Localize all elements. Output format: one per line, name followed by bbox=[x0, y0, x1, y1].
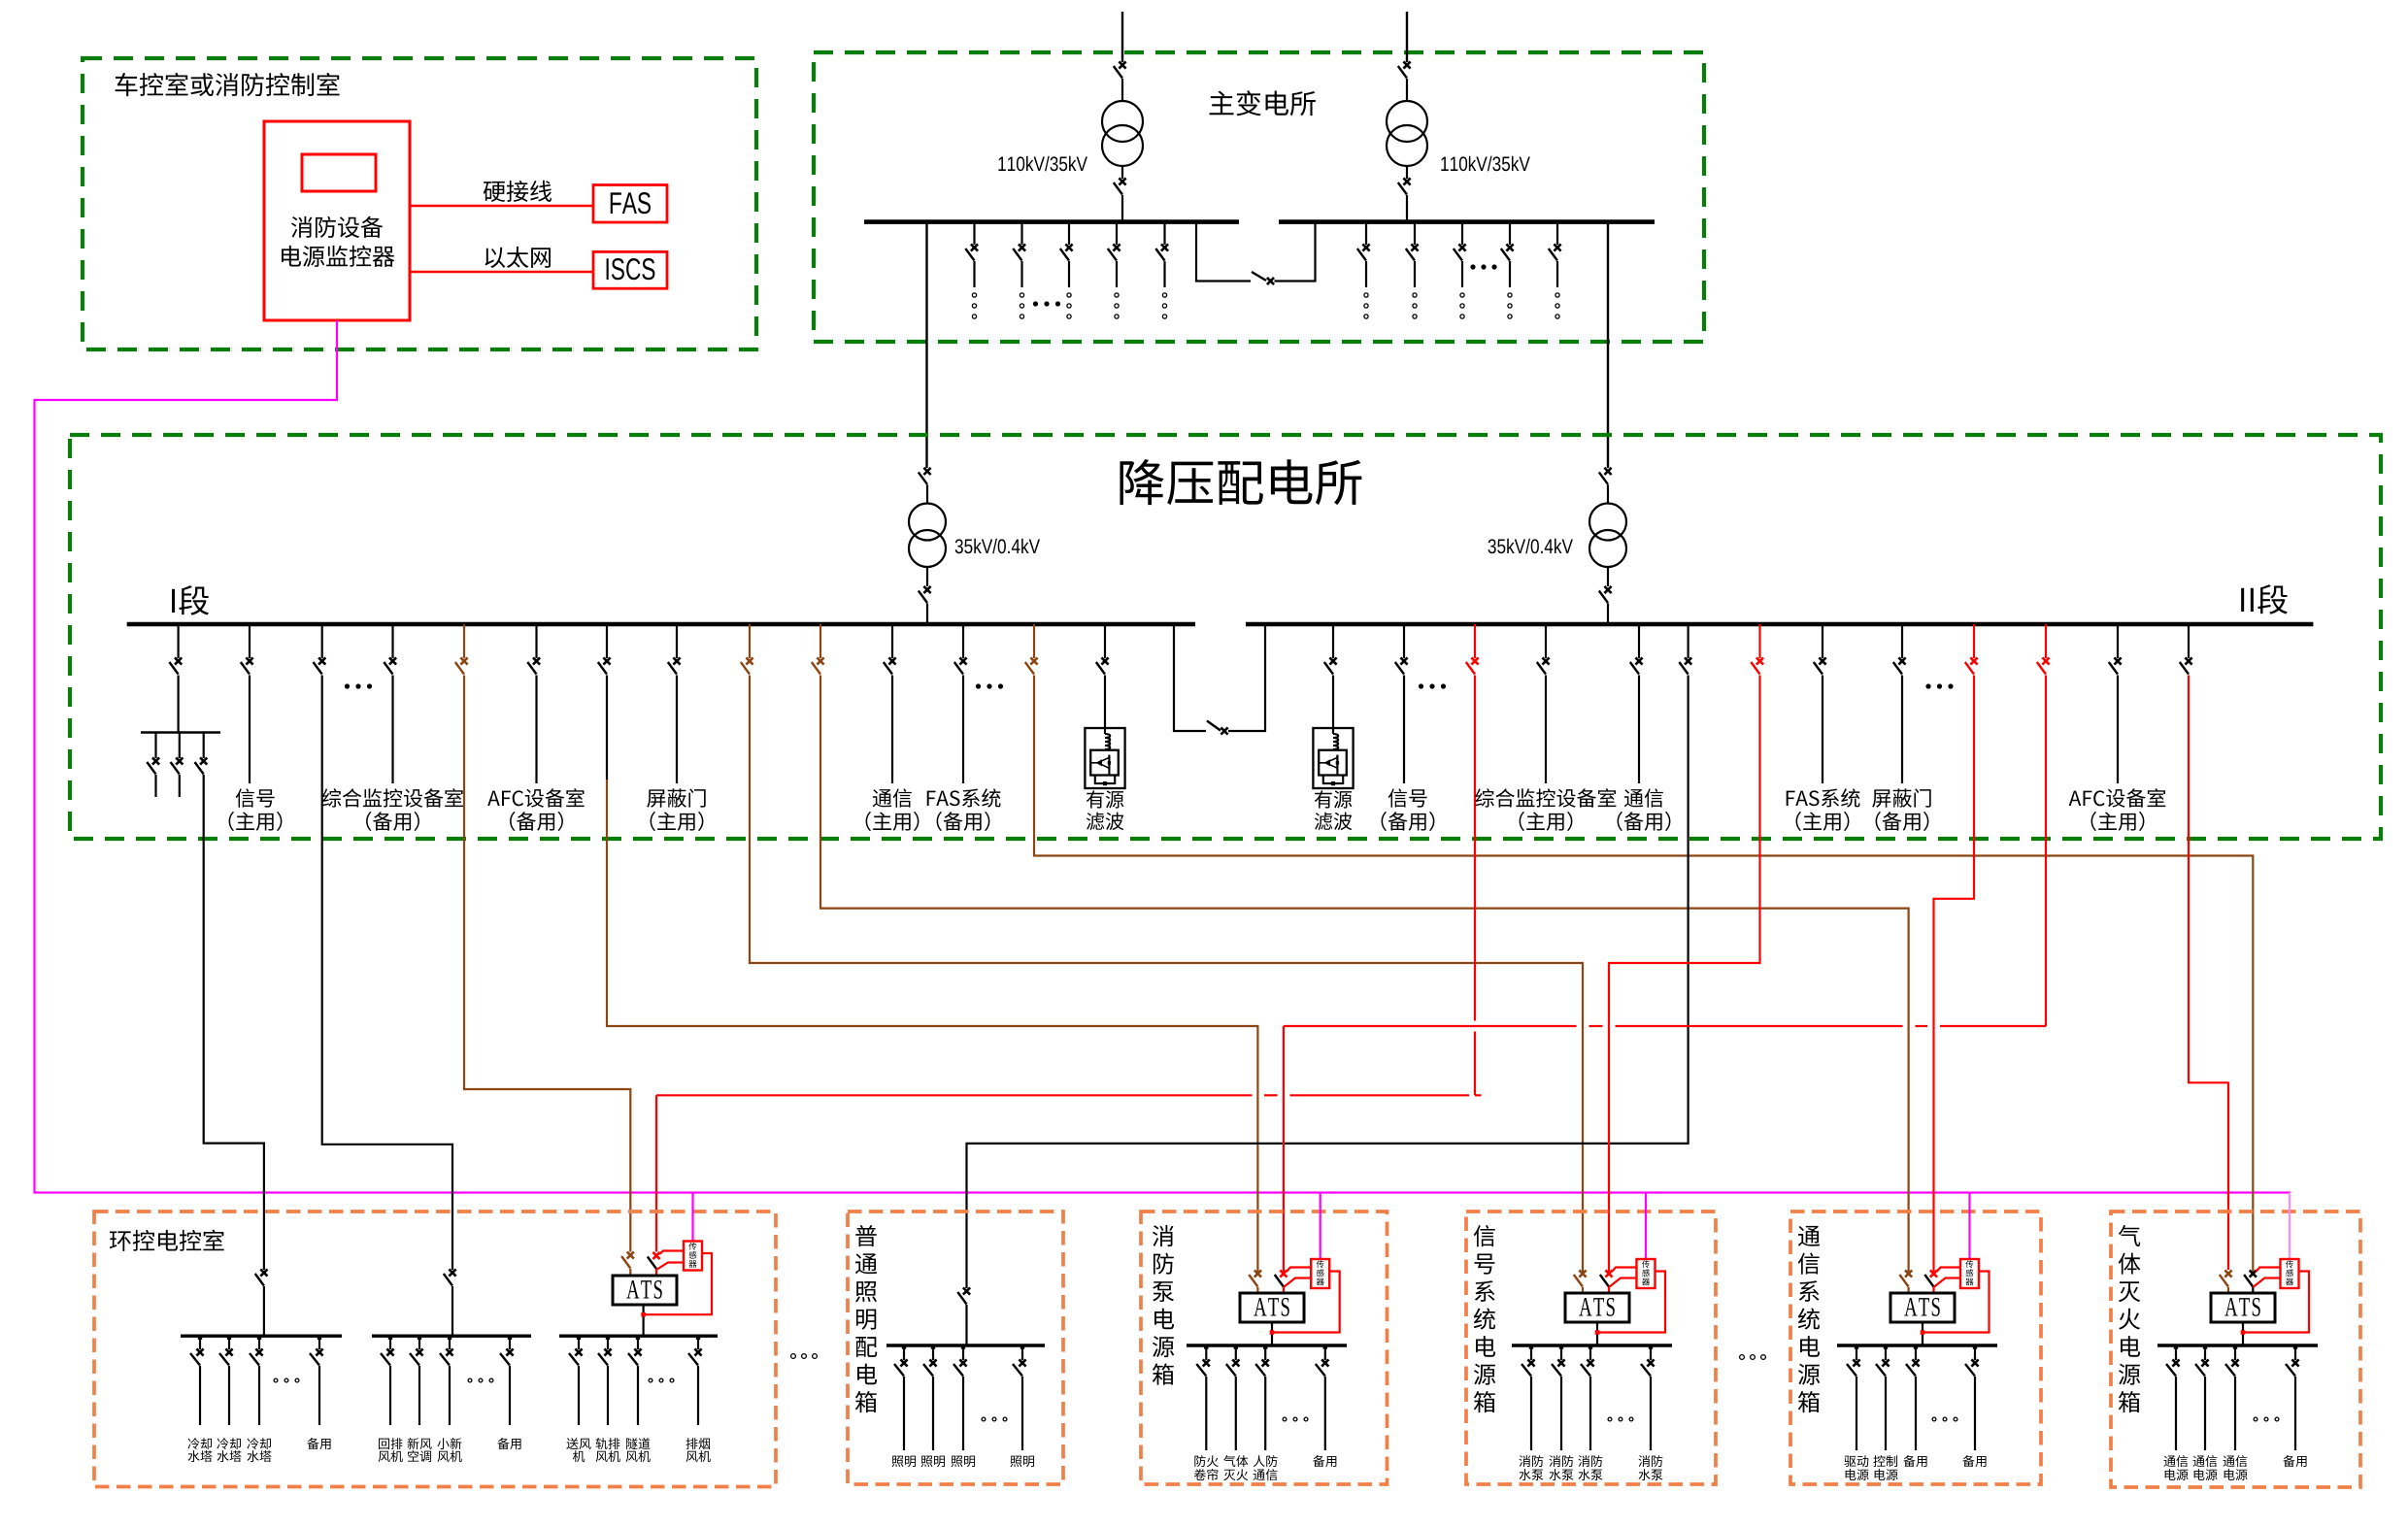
LV side breaker bbox=[1121, 166, 1123, 179]
label 滤波 bbox=[1315, 813, 1333, 831]
label 电 bbox=[1800, 1336, 1820, 1357]
label 隧道 bbox=[626, 1438, 638, 1449]
ATS brown-side breaker bbox=[1579, 1270, 1586, 1277]
branch breaker x=1242.3 bbox=[1205, 1345, 1207, 1360]
label 水泵 bbox=[1639, 1469, 1651, 1480]
label FAS系统 bbox=[927, 791, 936, 806]
label 感 bbox=[1966, 1269, 1974, 1277]
sensor taps bbox=[2256, 1268, 2280, 1273]
feeder 通信(主用) bbox=[891, 624, 893, 658]
label 电 bbox=[857, 1364, 877, 1385]
label 感 bbox=[689, 1251, 697, 1259]
label 环控电控室 bbox=[110, 1231, 131, 1250]
label 传 bbox=[2286, 1260, 2293, 1268]
label （备用） bbox=[1382, 812, 1387, 831]
hard-wire link 硬接线 to FAS bbox=[410, 205, 593, 207]
label 信号 bbox=[236, 788, 254, 807]
branch breaker (cooling tower group) x=206 bbox=[199, 1336, 201, 1349]
label 配 bbox=[855, 1337, 877, 1357]
label 冷却 bbox=[217, 1438, 228, 1449]
brown feeder to box1 ATS bbox=[463, 624, 465, 658]
label 通 bbox=[855, 1253, 877, 1274]
label 照明 bbox=[1011, 1456, 1022, 1467]
label 通信 bbox=[2164, 1456, 2176, 1467]
ATS red-side breaker bbox=[1605, 1270, 1612, 1277]
label 箱 bbox=[1474, 1391, 1495, 1412]
label 火 bbox=[2119, 1309, 2140, 1330]
label 器 bbox=[1317, 1278, 1324, 1285]
label 车控室或消防控制室 bbox=[116, 73, 138, 96]
label 感 bbox=[1317, 1269, 1324, 1277]
long feeder B to env-control group2 bbox=[321, 624, 323, 658]
sensor red loop bbox=[1923, 1272, 1990, 1333]
label 感 bbox=[2286, 1269, 2293, 1277]
label 源 bbox=[1798, 1364, 1820, 1385]
label 通信 bbox=[873, 789, 892, 807]
label 照明 bbox=[952, 1456, 963, 1467]
main substation feeder breaker x=1199.5 bbox=[1163, 222, 1165, 245]
label 降压配电所 bbox=[1120, 459, 1163, 505]
label 备用 bbox=[2283, 1455, 2294, 1467]
label I段 bbox=[172, 589, 175, 613]
main substation feeder breaker x=1555 bbox=[1509, 222, 1511, 245]
II-section: active filter feeder bbox=[1332, 624, 1334, 658]
ethernet link 以太网 to ISCS bbox=[410, 271, 593, 273]
feeder AFC设备室(主用) bbox=[2117, 624, 2119, 658]
label 水塔 bbox=[248, 1450, 259, 1462]
box: communication system supply 通信系统电源箱 bbox=[1790, 1212, 2041, 1484]
feeder turning brown to box3 ATS bbox=[606, 624, 608, 658]
ISCS box bbox=[593, 251, 667, 288]
branch breaker (cooling tower group) x=267 bbox=[258, 1336, 260, 1349]
LV breaker to 0.4kV bus bbox=[1607, 567, 1609, 586]
step-down substation box 降压配电所 bbox=[70, 435, 2381, 839]
ATS red-side breaker bbox=[1280, 1270, 1287, 1277]
branch breaker x=1973 bbox=[1915, 1345, 1917, 1360]
branch breaker (fan group) x=525 bbox=[509, 1336, 511, 1349]
label （备用） bbox=[1618, 812, 1622, 831]
label 综合监控设备室 bbox=[1475, 788, 1494, 807]
main substation feeder breaker x=1506 bbox=[1461, 222, 1463, 245]
label 器 bbox=[1965, 1278, 1973, 1285]
feeder 综合监控设备室(备用) bbox=[391, 624, 393, 658]
label 通信 bbox=[2193, 1456, 2205, 1467]
ATS output to bus3 bbox=[642, 1305, 644, 1336]
transformer 35kV/0.4kV bbox=[909, 504, 946, 541]
35kV bus II (main substation) bbox=[1279, 219, 1655, 224]
label 硬接线 bbox=[484, 182, 505, 202]
step-down bus tie bbox=[1174, 624, 1206, 731]
label 备用 bbox=[307, 1438, 318, 1449]
label 屏蔽门 bbox=[647, 789, 665, 807]
main substation feeder breaker x=1052.5 bbox=[1020, 222, 1022, 245]
label 卷帘 bbox=[1194, 1469, 1206, 1480]
branch breaker x=1303.2 bbox=[1264, 1345, 1266, 1360]
label 信 bbox=[1474, 1225, 1495, 1246]
sensor taps bbox=[1612, 1268, 1637, 1273]
fire-equipment power monitor box 消防设备电源监控器 bbox=[264, 121, 410, 320]
label 送风 bbox=[566, 1438, 578, 1449]
main substation bus tie bbox=[1196, 222, 1251, 282]
label II段 bbox=[2241, 588, 2244, 612]
label 综合监控设备室 bbox=[322, 788, 342, 807]
label 箱 bbox=[855, 1391, 877, 1412]
label 源 bbox=[1153, 1336, 1174, 1357]
LV breaker to 0.4kV bus bbox=[926, 567, 928, 586]
sensor box 传感器 bbox=[2289, 1193, 2291, 1260]
label FAS bbox=[611, 192, 621, 214]
group2 bus bbox=[372, 1334, 531, 1337]
label （备用） bbox=[510, 812, 515, 831]
label 统 bbox=[1798, 1308, 1820, 1329]
label 感 bbox=[1642, 1269, 1650, 1277]
label 35kV/0.4kV bbox=[1488, 539, 1496, 553]
feeder AFC设备室(备用) bbox=[535, 624, 537, 658]
label 信 bbox=[1798, 1253, 1820, 1275]
main substation feeder breaker x=1604 bbox=[1556, 222, 1558, 245]
ATS box bbox=[1240, 1293, 1304, 1322]
label 排烟 bbox=[686, 1438, 698, 1449]
bus section II (II段) bbox=[1246, 622, 2313, 626]
main substation feeder breaker x=1407 bbox=[1365, 222, 1367, 245]
branch breaker x=2034 bbox=[1974, 1345, 1976, 1360]
ellipsis between box4 and box5 bbox=[1740, 1355, 1745, 1360]
lighting branch breaker x=1053 bbox=[1021, 1345, 1023, 1360]
ATS output bbox=[1271, 1322, 1273, 1345]
label 明 bbox=[856, 1310, 876, 1330]
label 传 bbox=[688, 1243, 696, 1250]
label 有源 bbox=[1315, 790, 1332, 808]
brown feeder to box5 ATS bbox=[819, 624, 821, 658]
label AFC设备室 bbox=[2069, 791, 2082, 806]
branch breaker (cooling tower group) x=329 bbox=[318, 1336, 320, 1349]
branch breaker x=2271 bbox=[2204, 1345, 2206, 1360]
label 泵 bbox=[1153, 1281, 1174, 1302]
branch breaker (fan group) x=432 bbox=[418, 1336, 420, 1349]
label （主用） bbox=[1520, 812, 1524, 831]
branch breaker x=1700 bbox=[1650, 1345, 1652, 1360]
label 屏蔽门 bbox=[1872, 789, 1890, 807]
branch breaker (ATS-fed fan group) x=657 bbox=[637, 1336, 639, 1349]
label 人防 bbox=[1254, 1455, 1265, 1467]
red feeder to box4 ATS bbox=[1758, 624, 1760, 658]
group3 bus bbox=[559, 1334, 718, 1337]
label 风机 bbox=[596, 1451, 608, 1462]
feeder FAS系统(主用) bbox=[1822, 624, 1823, 658]
label 器 bbox=[1642, 1278, 1650, 1285]
feeder 信号(主用) bbox=[249, 624, 251, 658]
label 35kV/0.4kV bbox=[955, 539, 963, 553]
ATS output bbox=[1596, 1322, 1598, 1345]
main substation feeder breaker x=1457 bbox=[1414, 222, 1416, 245]
label ATS bbox=[626, 1280, 639, 1298]
ellipsis between box1 and box2 bbox=[791, 1354, 796, 1359]
sensor taps bbox=[1937, 1268, 1961, 1273]
label 号 bbox=[1475, 1254, 1495, 1275]
transformer 35kV/0.4kV bbox=[1589, 504, 1626, 541]
label 风机 bbox=[438, 1451, 450, 1462]
sensor box 传感器 bbox=[1320, 1193, 1321, 1260]
label （主用） bbox=[1796, 812, 1801, 831]
sensor box 传感器 bbox=[691, 1193, 693, 1242]
lighting bus bbox=[886, 1344, 1045, 1346]
control-room box (车控室或消防控制室) bbox=[83, 58, 756, 349]
label 信号 bbox=[1388, 788, 1407, 807]
main substation feeder breaker x=1150 bbox=[1116, 222, 1118, 245]
active filter I 有源滤波 bbox=[1104, 624, 1106, 658]
label 消防 bbox=[1549, 1455, 1560, 1467]
label 通 bbox=[1798, 1226, 1820, 1246]
group2 incoming breaker bbox=[449, 1269, 455, 1276]
label 冷却 bbox=[247, 1438, 258, 1449]
label 以太网 bbox=[485, 248, 505, 268]
label 小新 bbox=[437, 1438, 449, 1449]
35kV bus I (main substation) bbox=[864, 219, 1239, 224]
label 通信 bbox=[1254, 1470, 1265, 1480]
LV side breaker bbox=[1406, 166, 1408, 179]
label 系 bbox=[1799, 1280, 1820, 1302]
branch breaker x=2364 bbox=[2294, 1345, 2296, 1360]
label 水泵 bbox=[1550, 1469, 1561, 1480]
sensor red loop bbox=[2244, 1272, 2309, 1333]
lighting incoming breaker bbox=[963, 1287, 970, 1294]
label 灭火 bbox=[1223, 1470, 1235, 1480]
ATS output bbox=[2242, 1322, 2244, 1345]
red feeder to box3 ATS bbox=[2045, 624, 2047, 658]
label 主变电所 bbox=[1210, 91, 1234, 116]
transformer 110kV/35kV bbox=[1387, 101, 1427, 142]
ATS output bbox=[1922, 1322, 1923, 1345]
feeder to step-down TX1 bbox=[925, 222, 927, 468]
feeder 通信(备用) bbox=[1638, 624, 1640, 658]
label （主用） bbox=[651, 812, 655, 831]
branch breaker (ATS-fed fan group) x=626 bbox=[607, 1336, 609, 1349]
label 消防 bbox=[1519, 1455, 1530, 1467]
feeder FAS系统(备用) bbox=[962, 624, 964, 658]
branch breaker x=1608 bbox=[1560, 1345, 1562, 1360]
label FAS系统 bbox=[1787, 791, 1795, 806]
ATS red-side breaker bbox=[1930, 1270, 1937, 1277]
label 消防 bbox=[1578, 1455, 1589, 1467]
label 电源 bbox=[1846, 1469, 1856, 1480]
label 通信 bbox=[1624, 789, 1644, 807]
sensor red loop bbox=[1273, 1272, 1340, 1333]
branch breaker x=1942 bbox=[1885, 1345, 1887, 1360]
feeder 屏蔽门(备用) bbox=[1901, 624, 1903, 658]
label 器 bbox=[688, 1260, 696, 1267]
red feeder to box6 ATS left (black breaker) bbox=[2188, 624, 2190, 658]
brown feeder to box4 ATS bbox=[749, 624, 751, 658]
bus section I (I段) bbox=[127, 622, 1195, 626]
label 驱动 bbox=[1844, 1456, 1856, 1467]
label 110kV/35kV bbox=[998, 157, 1005, 171]
distribution bus bbox=[2157, 1344, 2318, 1346]
ATS box bbox=[1890, 1293, 1955, 1322]
branch breaker (ATS-fed fan group) x=719 bbox=[697, 1336, 699, 1349]
label 控制 bbox=[1873, 1455, 1885, 1467]
ATS right breaker (brown wire, black blade) bbox=[2250, 1270, 2257, 1277]
label 水塔 bbox=[217, 1450, 229, 1462]
label 机 bbox=[573, 1450, 585, 1462]
label 体 bbox=[2119, 1253, 2141, 1275]
label 滤波 bbox=[1087, 813, 1105, 831]
label 传 bbox=[1642, 1260, 1650, 1268]
label 电源 bbox=[2194, 1469, 2205, 1480]
ATS brown-side breaker bbox=[1905, 1270, 1912, 1277]
branch breaker (cooling tower group) x=236 bbox=[228, 1336, 230, 1349]
label （主用） bbox=[866, 812, 871, 831]
label 轨排 bbox=[596, 1438, 608, 1449]
label ISCS bbox=[607, 258, 609, 280]
35kV/0.4kV transformer feed breaker bbox=[923, 468, 930, 475]
label 消 bbox=[1153, 1225, 1174, 1246]
branch breaker x=1638 bbox=[1589, 1345, 1591, 1360]
long feeder A to env-control group1 bbox=[204, 775, 264, 1270]
label 水塔 bbox=[188, 1450, 200, 1462]
label 备用 bbox=[1903, 1455, 1915, 1467]
label （备用） bbox=[937, 812, 942, 831]
FAS box bbox=[593, 185, 667, 223]
label 灭 bbox=[2119, 1281, 2140, 1302]
label 气 bbox=[2119, 1225, 2140, 1246]
branch breaker (fan group) x=463 bbox=[449, 1336, 451, 1349]
ATS brown-side breaker bbox=[1254, 1270, 1261, 1277]
label 气体 bbox=[1223, 1455, 1235, 1467]
label （备用） bbox=[1876, 812, 1881, 831]
label 箱 bbox=[1153, 1363, 1174, 1384]
group3 ATS: brown breaker bbox=[627, 1251, 634, 1258]
sensor red loop to ATS output bbox=[645, 1253, 712, 1314]
label 风机 bbox=[686, 1451, 698, 1462]
feeder 综合监控设备室(主用) bbox=[1545, 624, 1547, 658]
label 消防 bbox=[1638, 1455, 1650, 1467]
label 防火 bbox=[1194, 1455, 1205, 1467]
label 器 bbox=[2286, 1278, 2293, 1285]
main substation feeder breaker x=1101 bbox=[1068, 222, 1070, 245]
red feeder to box5 ATS bbox=[1973, 624, 1975, 658]
group3 ATS: red breaker (black blade) bbox=[652, 1252, 659, 1259]
box: env-control room 环控电控室 bbox=[94, 1212, 776, 1487]
transformer 110kV/35kV bbox=[1102, 101, 1143, 142]
label 备用 bbox=[497, 1438, 509, 1449]
label 有源 bbox=[1087, 790, 1104, 808]
label 电 bbox=[2121, 1336, 2140, 1357]
label 电源 bbox=[2224, 1469, 2235, 1480]
label 传 bbox=[1965, 1260, 1973, 1268]
group1 bus bbox=[181, 1334, 342, 1337]
group1 incoming breaker bbox=[260, 1269, 267, 1276]
label 箱 bbox=[2119, 1391, 2140, 1412]
label ATS bbox=[1904, 1298, 1917, 1315]
label 冷却 bbox=[187, 1438, 199, 1449]
ATS box bbox=[1565, 1293, 1629, 1322]
distribution bus bbox=[1512, 1344, 1672, 1346]
label ATS bbox=[2224, 1298, 2237, 1315]
label （主用） bbox=[2091, 812, 2096, 831]
label 电 bbox=[1476, 1336, 1495, 1357]
label 电源 bbox=[1875, 1469, 1886, 1480]
label 防 bbox=[1154, 1253, 1174, 1275]
incoming 110kV line + breaker bbox=[1406, 12, 1408, 62]
label 备用 bbox=[1313, 1455, 1324, 1467]
magenta control wire from monitor to all sensor boxes bbox=[35, 320, 2291, 1193]
box: fire pump supply 消防泵电源箱 bbox=[1141, 1212, 1388, 1484]
label 备用 bbox=[1962, 1455, 1974, 1467]
label 箱 bbox=[1798, 1391, 1820, 1412]
box: gas fire-extinguishing supply 气体灭火电源箱 bbox=[2111, 1212, 2360, 1487]
I-section sub-bus feeder group (leftmost) bbox=[178, 624, 180, 658]
label 普 bbox=[855, 1225, 877, 1246]
sensor box 传感器 bbox=[1645, 1193, 1647, 1260]
label 统 bbox=[1474, 1308, 1495, 1329]
branch breaker x=1272.8 bbox=[1235, 1345, 1237, 1360]
label 新风 bbox=[408, 1438, 419, 1449]
label 照明 bbox=[892, 1456, 904, 1467]
branch breaker x=1364.8 bbox=[1324, 1345, 1326, 1360]
label 回排 bbox=[379, 1439, 389, 1449]
label （主用） bbox=[229, 812, 234, 831]
sensor taps bbox=[659, 1251, 684, 1255]
label （备用） bbox=[366, 812, 371, 831]
label ATS bbox=[1254, 1298, 1266, 1315]
label 系 bbox=[1475, 1280, 1495, 1302]
label 电源 bbox=[2165, 1469, 2176, 1480]
label 电源监控器 bbox=[282, 246, 301, 267]
label 源 bbox=[1474, 1364, 1495, 1385]
feeder 屏蔽门(主用) bbox=[676, 624, 678, 658]
label 空调 bbox=[408, 1450, 418, 1462]
lighting branch breaker x=961 bbox=[932, 1345, 934, 1360]
label 源 bbox=[2119, 1364, 2140, 1385]
ATS box bbox=[2211, 1293, 2275, 1322]
distribution bus bbox=[1187, 1344, 1347, 1346]
branch breaker x=2302 bbox=[2234, 1345, 2236, 1360]
main substation feeder breaker x=1003.5 bbox=[973, 222, 975, 245]
label 照明 bbox=[921, 1456, 933, 1467]
branch breaker x=1912 bbox=[1856, 1345, 1857, 1360]
branch breaker x=1577 bbox=[1530, 1345, 1532, 1360]
box: ordinary lighting 普通照明配电箱 bbox=[848, 1212, 1063, 1484]
sensor box 传感器 bbox=[1968, 1193, 1970, 1260]
label 照 bbox=[855, 1281, 877, 1302]
35kV/0.4kV transformer feed breaker bbox=[1604, 468, 1611, 475]
lighting branch breaker x=931 bbox=[903, 1345, 905, 1360]
branch breaker x=2241 bbox=[2175, 1345, 2177, 1360]
label 风机 bbox=[626, 1451, 638, 1462]
ATS box bbox=[613, 1276, 677, 1305]
sensor red loop bbox=[1598, 1272, 1665, 1333]
incoming 110kV line + breaker bbox=[1121, 12, 1123, 62]
feeder to step-down TX2 bbox=[1607, 222, 1609, 468]
label ATS bbox=[1579, 1298, 1591, 1315]
main substation box 主变电所 bbox=[814, 52, 1704, 342]
lighting branch breaker x=992 bbox=[962, 1345, 964, 1360]
feeder 信号(备用) bbox=[1403, 624, 1405, 658]
label 传 bbox=[1317, 1260, 1324, 1268]
label 水泵 bbox=[1579, 1469, 1590, 1480]
label 消防设备 bbox=[291, 216, 313, 238]
branch breaker (fan group) x=402 bbox=[389, 1336, 391, 1349]
label 水泵 bbox=[1520, 1469, 1531, 1480]
label AFC设备室 bbox=[487, 791, 500, 806]
branch breaker (ATS-fed fan group) x=596 bbox=[578, 1336, 580, 1349]
sensor taps bbox=[1287, 1268, 1311, 1273]
label 电 bbox=[1154, 1309, 1174, 1330]
label 通信 bbox=[2224, 1456, 2235, 1467]
box: signal system supply 信号系统电源箱 bbox=[1466, 1212, 1716, 1484]
label 风机 bbox=[379, 1451, 390, 1462]
label 110kV/35kV bbox=[1441, 157, 1448, 171]
